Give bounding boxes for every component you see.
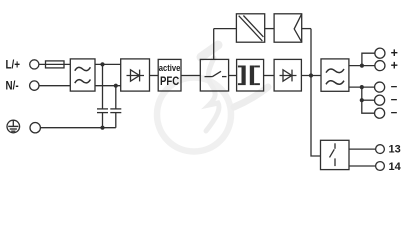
svg-text:−: − [391, 94, 398, 106]
svg-text:+: + [391, 58, 398, 72]
svg-text:PFC: PFC [160, 75, 179, 88]
svg-text:L/+: L/+ [6, 59, 20, 72]
svg-text:−: − [391, 81, 398, 93]
svg-text:−: − [391, 107, 398, 119]
svg-text:N/-: N/- [6, 80, 19, 93]
svg-text:active: active [159, 62, 181, 73]
svg-text:13: 13 [389, 143, 401, 155]
svg-text:14: 14 [389, 161, 402, 173]
